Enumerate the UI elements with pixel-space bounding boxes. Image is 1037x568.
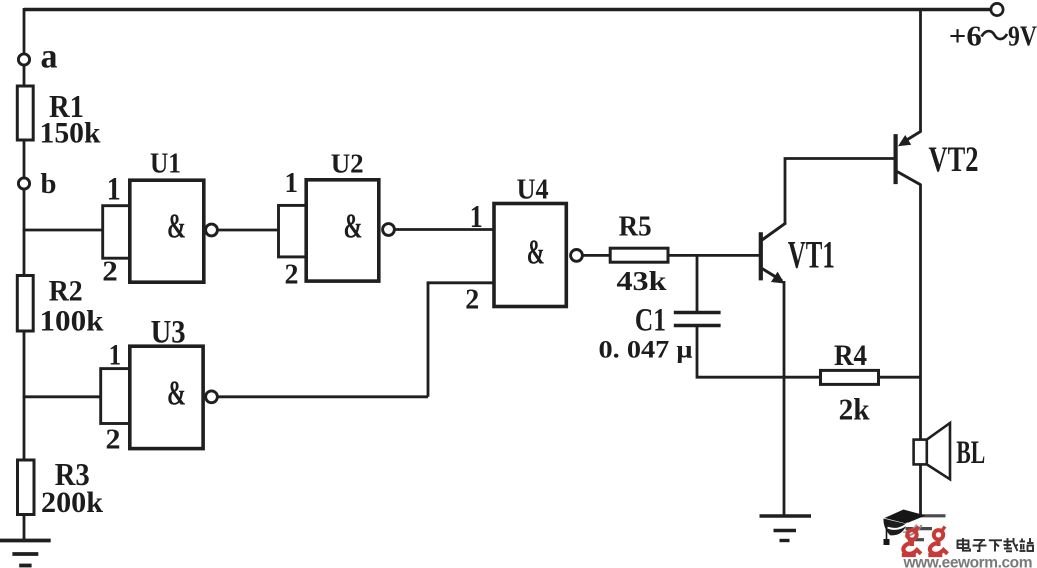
ground (VT1 emitter) (760, 516, 812, 541)
wire: branch to U1 inputs (23, 229, 104, 232)
svg-text:+6: +6 (949, 22, 982, 53)
node b (18, 178, 29, 189)
wire: U1 output to U2 input (218, 229, 279, 232)
svg-text:C1: C1 (635, 302, 666, 338)
wire: U2 output to U4 pin 1 (395, 228, 495, 231)
wire: speaker to ground (919, 464, 922, 516)
svg-text:R5: R5 (619, 211, 652, 242)
svg-text:&: & (527, 233, 545, 272)
svg-text:b: b (41, 169, 57, 200)
wire: junction down to C1 (696, 255, 699, 311)
wire: VT1 emitter down to ground (783, 281, 786, 516)
capacitor C1 (674, 313, 721, 326)
node a (18, 54, 29, 65)
wire: R1 to node b (23, 140, 26, 178)
svg-text:www.eeworm.com: www.eeworm.com (903, 555, 1033, 568)
wire: top supply rail (24, 8, 991, 11)
nand gate U4 (494, 204, 566, 307)
svg-text:2: 2 (102, 256, 118, 288)
nand gate U2 (279, 180, 379, 281)
下 (989, 540, 1002, 551)
svg-text:VT2: VT2 (929, 139, 979, 179)
wire: VT2 collector down to speaker (919, 184, 922, 440)
子 (973, 540, 987, 551)
logo: gray text 电子下载站 (drawn glyphs) (958, 538, 1034, 552)
svg-text:R4: R4 (834, 339, 867, 372)
wire: left rail top corner down to node a (23, 8, 26, 54)
resistor R1 (17, 86, 33, 140)
svg-text:&: & (167, 207, 186, 246)
svg-text:1: 1 (107, 171, 121, 207)
U3 output bubble (206, 391, 218, 403)
resistor R4 (821, 370, 879, 384)
载 (1004, 538, 1018, 551)
logo: red 虫 character 1 (902, 527, 921, 556)
svg-text:a: a (41, 37, 58, 76)
wire: C1 down and right to R4 (697, 327, 821, 377)
wire: node a to R1 (23, 66, 26, 87)
svg-text:U3: U3 (151, 314, 186, 350)
transistor VT2 (896, 132, 921, 186)
svg-text:100k: 100k (40, 305, 104, 338)
wire: R2 down past U3 branch to R3 (23, 331, 26, 461)
ground (speaker) (894, 516, 946, 540)
wire: R5 to VT1 base (668, 254, 759, 257)
U4 output bubble (571, 250, 583, 262)
U1 output bubble (206, 224, 218, 236)
svg-text:2: 2 (465, 285, 479, 316)
svg-text:VT1: VT1 (788, 233, 835, 276)
logo: eeworm graduation-cap mark (883, 510, 925, 546)
resistor R5 (610, 248, 668, 262)
svg-text:1: 1 (109, 339, 122, 372)
U2 output bubble (383, 224, 395, 236)
svg-text:2k: 2k (839, 392, 871, 427)
svg-text:R2: R2 (49, 274, 83, 307)
wire: vertical up to U4 pin2 level (427, 283, 430, 397)
svg-text:2: 2 (285, 258, 299, 290)
speaker BL (914, 423, 950, 479)
wire: to U4 pin 2 (427, 281, 494, 284)
电 (958, 538, 971, 551)
nand gate U1 (103, 180, 204, 282)
svg-text:150k: 150k (40, 117, 101, 150)
svg-text:U1: U1 (150, 147, 181, 179)
wire: U3 output to corner (218, 395, 429, 398)
svg-text:U4: U4 (517, 175, 549, 206)
svg-text:200k: 200k (41, 486, 103, 519)
站 (1020, 538, 1034, 551)
svg-text:BL: BL (956, 435, 985, 471)
wire: R3 to ground (23, 515, 26, 541)
resistor R2 (17, 276, 33, 332)
svg-text:43k: 43k (617, 266, 667, 296)
wire: R4 to VT2 collector rail (879, 376, 922, 379)
svg-text:&: & (167, 374, 186, 413)
nand gate U3 (101, 346, 203, 448)
ground (bottom left) (0, 541, 51, 566)
wire: U4 output to R5 (583, 254, 611, 257)
wire: supply rail down to VT2 emitter (919, 10, 922, 133)
wire: node b down to R2 (23, 190, 26, 277)
svg-text:U2: U2 (331, 148, 364, 178)
logo: red 虫 character 2 (928, 527, 947, 556)
svg-text:0. 047 μ: 0. 047 μ (599, 337, 693, 364)
svg-text:2: 2 (106, 425, 121, 456)
transistor VT1 (761, 223, 786, 284)
wire: VT1 collector up and to VT2 base (785, 159, 896, 225)
resistor R3 (18, 460, 35, 515)
svg-text:1: 1 (470, 198, 483, 234)
svg-text:1: 1 (285, 167, 299, 199)
supply terminal +6~9V (991, 3, 1003, 15)
svg-text:9V: 9V (1008, 22, 1037, 53)
wire: branch to U3 inputs (23, 395, 102, 398)
svg-text:&: & (344, 207, 363, 246)
